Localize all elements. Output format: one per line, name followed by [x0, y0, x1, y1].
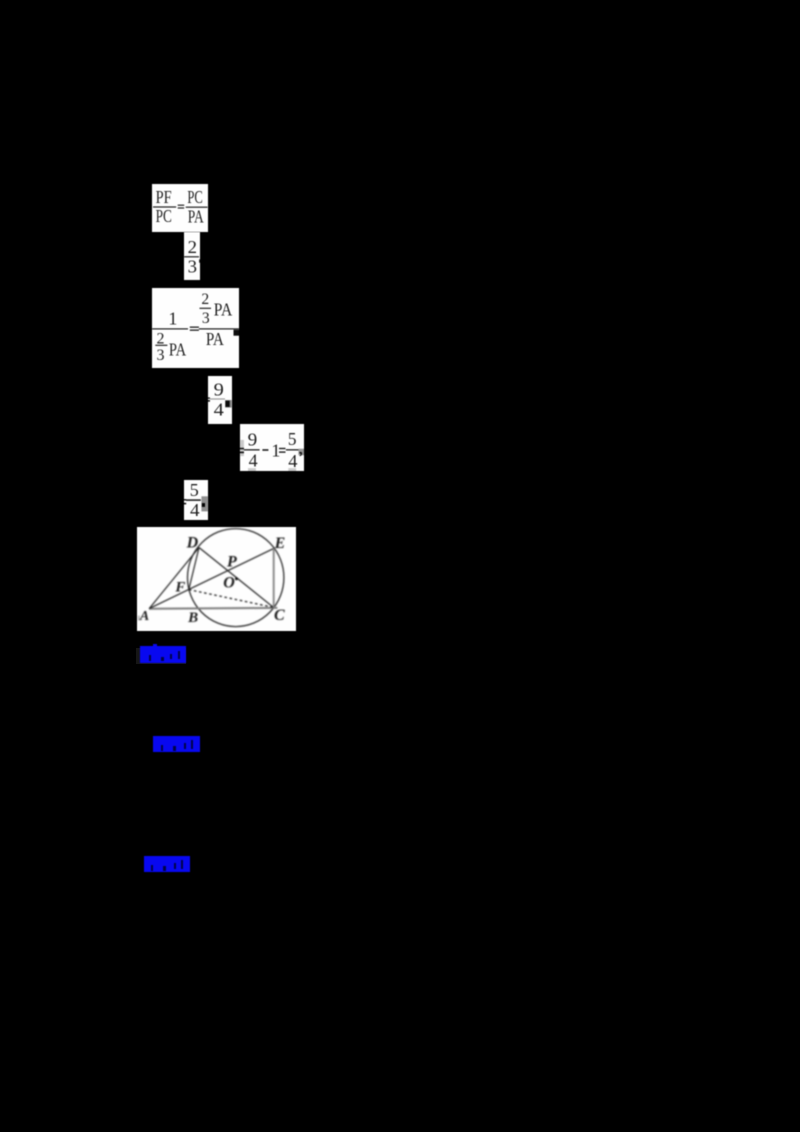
- chord E to C: [273, 548, 275, 608]
- formula box 1: PF/PC = PC/PA: [152, 184, 208, 232]
- svg-text:E: E: [274, 535, 286, 552]
- svg-text:A: A: [139, 609, 149, 624]
- svg-text:3: 3: [202, 310, 210, 327]
- line D to C: [199, 548, 274, 608]
- formula box 4: = 9/4: [208, 376, 232, 424]
- mini bar: [155, 345, 167, 346]
- light gray column left: [240, 440, 244, 456]
- svg-text:4: 4: [214, 400, 224, 420]
- circle O: [188, 529, 284, 627]
- geometry figure box: circle with points A B C D E F O P: [137, 527, 296, 631]
- svg-text:PA: PA: [169, 340, 186, 360]
- black square cursor: [234, 330, 240, 336]
- svg-text:5: 5: [288, 429, 297, 449]
- formula box 5: = 9/4 - 1 = 5/4,: [240, 424, 304, 471]
- formula box 2: fraction 2/3: [184, 232, 200, 280]
- gray square with black square cursor: [225, 400, 232, 408]
- center dot O: [235, 577, 238, 580]
- formula box 6: = 5/4: [184, 480, 208, 520]
- clipped equals at left edge: [184, 499, 186, 500]
- svg-text:PC: PC: [156, 206, 172, 226]
- svg-text:PC: PC: [187, 187, 202, 207]
- fraction bar: [186, 499, 201, 501]
- fraction bar: [184, 256, 199, 257]
- formula box 3: 1/((2/3)PA) = ((2/3)PA)/PA: [152, 288, 239, 368]
- svg-text:P: P: [226, 554, 237, 571]
- svg-text:F: F: [174, 580, 185, 596]
- svg-text:3: 3: [157, 347, 165, 364]
- svg-text:9: 9: [248, 430, 258, 450]
- blue label 2 (highlighted CJK tag): [153, 736, 200, 752]
- gray fraction bar: [210, 398, 225, 399]
- bottom gray marks: [248, 468, 256, 471]
- svg-text:4: 4: [249, 450, 258, 470]
- svg-text:3: 3: [188, 256, 197, 276]
- svg-text:4: 4: [288, 451, 297, 471]
- svg-text:PA: PA: [188, 207, 204, 227]
- svg-text:PF: PF: [156, 187, 172, 207]
- svg-text:O: O: [223, 575, 235, 592]
- clipped equals at left edge: [240, 448, 244, 450]
- blue label 3 (highlighted CJK tag): [144, 856, 190, 872]
- main fraction bar right: [199, 328, 239, 329]
- right mini bar: [200, 308, 212, 309]
- svg-text:2: 2: [201, 291, 209, 308]
- gray rectangle with black square cursor: [201, 496, 207, 511]
- gray square with comma: [298, 449, 304, 456]
- line A to D: [149, 548, 199, 609]
- svg-text:9: 9: [214, 380, 224, 400]
- clipped equals at left edge: [208, 397, 210, 398]
- svg-text:B: B: [187, 610, 198, 626]
- chord D to F: [189, 548, 199, 590]
- svg-text:C: C: [274, 607, 285, 624]
- blue label 1 (highlighted CJK tag): [136, 648, 186, 664]
- fraction bar 1: [244, 449, 260, 450]
- small black notch right edge: [198, 259, 201, 262]
- main fraction bar left: [152, 328, 188, 329]
- svg-text:PA: PA: [214, 300, 233, 320]
- svg-text:1: 1: [271, 441, 280, 461]
- fraction bar 2: [286, 449, 300, 450]
- svg-text:4: 4: [190, 500, 200, 520]
- equals sign: [190, 327, 199, 328]
- line A to E through F and P: [149, 548, 274, 608]
- thick gray line A to C: [149, 607, 277, 610]
- svg-text:PA: PA: [206, 329, 224, 349]
- dashed line F to C: [189, 590, 274, 608]
- fraction bar right: [186, 207, 208, 208]
- equals sign: [279, 448, 286, 449]
- minus sign: [262, 449, 268, 451]
- equals sign: [178, 205, 185, 206]
- fraction bar left: [153, 206, 176, 207]
- svg-text:1: 1: [168, 308, 177, 328]
- svg-text:D: D: [186, 535, 199, 552]
- svg-text:2: 2: [188, 237, 197, 257]
- gray artifact near A: [138, 616, 140, 621]
- svg-text:5: 5: [190, 480, 199, 500]
